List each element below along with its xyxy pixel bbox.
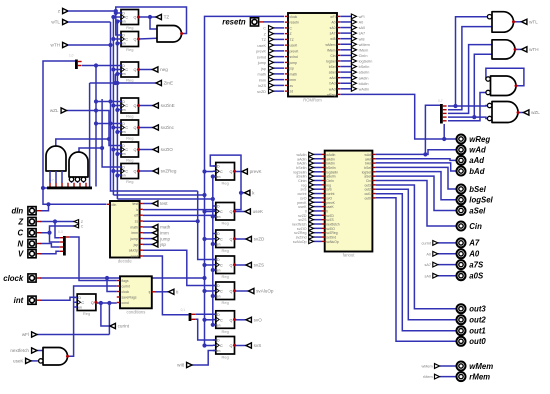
svg-text:math: math	[160, 225, 171, 230]
wire wFl tunnel net	[37, 334, 109, 336]
output pin out2	[457, 315, 466, 324]
svg-text:svZD: svZD	[254, 237, 265, 242]
tunnel wTH	[522, 47, 527, 52]
svg-text:logSel: logSel	[326, 59, 336, 63]
svg-text:wI8: wI8	[177, 363, 185, 368]
svg-text:Q: Q	[230, 170, 233, 174]
wire gate G3 output loop to its inverted input	[486, 68, 524, 85]
svg-text:C: C	[125, 126, 128, 130]
fanout left input tunnels	[292, 152, 322, 244]
svg-text:zd: zd	[290, 90, 294, 94]
wire fanout bSel to bSel pin	[376, 167, 457, 189]
svg-text:D: D	[217, 165, 220, 169]
tunnel wMem input	[435, 364, 440, 369]
svg-text:svZD: svZD	[257, 90, 266, 94]
wire register svS Q to tunnel	[235, 345, 247, 347]
wire splitter bit0 to gate G1 inverted input	[448, 17, 488, 108]
svg-text:curInt: curInt	[422, 242, 432, 246]
svg-text:useK: useK	[253, 209, 264, 214]
svg-text:0-7: 0-7	[438, 99, 443, 103]
wire decode aluOp output to svAluOp register D	[143, 250, 216, 285]
wire splitter bit4 to gate G3 inverted input	[448, 93, 486, 121]
register A4 svZinE	[118, 98, 140, 119]
svg-text:useK: useK	[290, 44, 298, 48]
svg-text:svZinc: svZinc	[161, 125, 175, 130]
svg-text:svO: svO	[254, 318, 263, 323]
svg-text:Q: Q	[230, 318, 233, 322]
svg-text:Reg: Reg	[221, 300, 228, 305]
wire decode zs output to svZS register D	[143, 191, 216, 260]
output pin aAd	[457, 156, 466, 165]
svg-text:wTL: wTL	[529, 20, 538, 25]
svg-text:jump: jump	[257, 61, 266, 65]
output pin wMem	[457, 362, 466, 371]
wire wMem tunnel to wMem pin	[440, 365, 457, 367]
wire conditions ti output to tunnel	[155, 291, 169, 293]
svg-text:Reg: Reg	[83, 311, 90, 316]
svg-text:a7S: a7S	[469, 260, 484, 269]
wire ROMRom wReg output to wReg pin	[340, 94, 456, 141]
svg-text:D: D	[217, 339, 220, 343]
svg-text:bAdIn: bAdIn	[359, 82, 369, 86]
svg-text:C: C	[81, 225, 84, 229]
condition splitter	[181, 308, 196, 321]
svg-text:Q: Q	[230, 237, 233, 241]
svg-text:en: en	[78, 306, 82, 310]
wire up-gate 2 output to register A7 D	[79, 148, 118, 167]
svg-text:out2: out2	[469, 316, 486, 325]
ROMRom control block U1	[285, 13, 340, 103]
and gate G2 wTH	[492, 40, 515, 59]
output pin out0	[457, 337, 466, 346]
svg-text:sA7: sA7	[424, 263, 431, 267]
tunnel svO	[246, 317, 251, 322]
svg-text:en: en	[122, 72, 126, 76]
register A7 svZReg	[118, 164, 140, 185]
svg-text:en: en	[217, 323, 221, 327]
svg-text:Q: Q	[134, 38, 137, 42]
svg-text:Q: Q	[230, 210, 233, 214]
wire wReg to address splitter	[443, 124, 445, 139]
conditions block U4	[117, 276, 155, 314]
svg-text:en: en	[217, 215, 221, 219]
wire fanout wAd to wAd pin	[376, 150, 457, 155]
wire fanout out1 to out1 pin	[376, 194, 457, 331]
svg-text:imm: imm	[259, 78, 266, 82]
svg-text:prevK: prevK	[290, 49, 300, 53]
svg-text:wI8: wI8	[330, 37, 335, 41]
svg-text:en: en	[122, 174, 126, 178]
wire wZL tunnel input net	[67, 111, 110, 140]
wire condition splitter bit1 to svS register D	[195, 319, 216, 340]
svg-text:inZS: inZS	[258, 84, 266, 88]
register A1 TZ	[118, 10, 140, 31]
svg-text:out0: out0	[469, 337, 486, 346]
wire flags bus to conditions block	[70, 237, 117, 281]
svg-text:C: C	[220, 170, 223, 174]
svg-text:C: C	[125, 38, 128, 42]
svg-text:bSel: bSel	[469, 185, 486, 194]
wire TZ and-gate feedback loop	[114, 7, 187, 35]
tunnel k	[245, 190, 250, 195]
wire fanout aAd to aAd pin	[376, 159, 457, 161]
svg-text:Q: Q	[230, 263, 233, 267]
svg-text:math: math	[130, 225, 138, 229]
tunnel nextfetch	[32, 348, 37, 353]
svg-text:Reg: Reg	[221, 181, 228, 186]
svg-text:test: test	[132, 202, 138, 206]
tunnel useK	[245, 209, 250, 214]
wire V pin to flags splitter	[40, 251, 59, 253]
svg-text:nextfetch: nextfetch	[10, 348, 29, 353]
svg-text:TZ: TZ	[290, 38, 294, 42]
svg-text:Reg: Reg	[126, 114, 133, 119]
svg-text:clock: clock	[290, 15, 298, 19]
input pin resetn	[250, 18, 258, 26]
register A3 neg	[118, 62, 140, 83]
svg-text:svInd: svInd	[257, 55, 266, 59]
register svAluOp	[213, 282, 236, 305]
register prevK	[213, 163, 236, 186]
input pin clock	[28, 274, 36, 282]
svg-text:wI8: wI8	[359, 37, 365, 41]
svg-text:A0: A0	[331, 20, 335, 24]
wire clock to conditions block	[105, 276, 117, 292]
svg-text:wFl: wFl	[359, 15, 365, 19]
svg-text:Q: Q	[230, 344, 233, 348]
wire splitter bit1 to gate G1 input	[448, 27, 492, 110]
wire left vertical x96	[95, 111, 97, 187]
output pin out3	[457, 304, 466, 313]
wire register svZD Q to tunnel	[235, 238, 247, 240]
wire N pin to flags splitter	[40, 244, 59, 248]
svg-text:out1: out1	[469, 327, 485, 336]
svg-text:wFl: wFl	[330, 15, 336, 19]
svg-text:svInd: svInd	[290, 55, 298, 59]
svg-text:useK: useK	[13, 359, 24, 364]
svg-text:bSelIn: bSelIn	[359, 65, 370, 69]
svg-text:Reg: Reg	[126, 25, 133, 30]
wire gate G4 output to wZL tunnel	[518, 112, 524, 114]
svg-text:zs: zs	[290, 84, 294, 88]
svg-text:wReg: wReg	[327, 93, 336, 97]
wire wTH tunnel to registers	[68, 44, 111, 46]
tunnel wFl	[32, 332, 37, 337]
svg-text:aAd: aAd	[329, 76, 335, 80]
wire curInt tunnel stub	[99, 301, 110, 326]
wire sA7 tunnel to a7S pin	[438, 264, 456, 266]
wire T splitter to register A3 D	[82, 63, 118, 112]
svg-text:Q: Q	[134, 68, 137, 72]
svg-text:A7: A7	[468, 239, 480, 248]
svg-text:Q: Q	[134, 104, 137, 108]
register svZS	[213, 256, 236, 279]
svg-text:V: V	[18, 250, 24, 259]
svg-text:svZIO: svZIO	[161, 147, 174, 152]
svg-text:Cin: Cin	[330, 54, 335, 58]
svg-text:N: N	[18, 239, 24, 248]
svg-text:jsp: jsp	[133, 243, 139, 247]
wire fanout Cin to Cin pin	[376, 181, 457, 227]
wire wAd bus to address splitter	[423, 105, 440, 156]
svg-text:a0S: a0S	[469, 272, 484, 281]
up and-gate L1	[46, 146, 66, 171]
tunnel A0	[433, 251, 438, 256]
wire TZ register output to tunnel	[139, 15, 158, 29]
wire int register Q to conditions cond input	[97, 301, 117, 335]
svg-text:Q: Q	[134, 148, 137, 152]
wire resetn pin to ROMRom block	[263, 21, 284, 23]
wire fanout out2 to out2 pin	[376, 189, 457, 320]
svg-text:wMem: wMem	[422, 365, 433, 369]
wire decode k output net with prevK feedback loop	[143, 155, 245, 210]
svg-text:wAd: wAd	[329, 87, 336, 91]
svg-text:TZ: TZ	[164, 15, 170, 20]
and gate G4 wZL with inverted inputs	[487, 102, 518, 123]
output pin aSel	[457, 206, 466, 215]
svg-text:C: C	[125, 68, 128, 72]
svg-text:A0: A0	[468, 250, 480, 259]
input pin dIn	[28, 207, 36, 215]
wire decode test output to tunnel	[143, 203, 153, 205]
svg-text:Reg: Reg	[126, 47, 133, 52]
wire sA0 tunnel to a0S pin	[438, 275, 456, 277]
register A5 svZinc	[118, 120, 140, 141]
input pin int	[28, 296, 36, 304]
svg-text:C: C	[125, 170, 128, 174]
svg-text:en: en	[217, 175, 221, 179]
svg-text:logSelIn: logSelIn	[359, 60, 373, 64]
svg-text:prevK: prevK	[250, 169, 263, 174]
svg-text:sA7: sA7	[359, 32, 366, 36]
wire fanout bAd to bAd pin	[376, 163, 457, 171]
svg-text:imm: imm	[160, 231, 169, 236]
tunnel wTL	[522, 19, 527, 24]
svg-text:wMem: wMem	[359, 43, 370, 47]
tunnel sA7	[433, 262, 438, 267]
svg-text:rMem: rMem	[423, 375, 433, 379]
output pin A0	[457, 249, 466, 258]
svg-text:curInt: curInt	[118, 324, 130, 329]
svg-text:fanout: fanout	[343, 253, 355, 258]
wire curInt net from interrupt gate to conditions	[68, 286, 117, 356]
svg-text:imm: imm	[131, 231, 138, 235]
svg-text:A0: A0	[426, 252, 431, 256]
tunnel z top left	[63, 8, 68, 13]
svg-text:Q: Q	[134, 170, 137, 174]
svg-text:wAdIn: wAdIn	[359, 87, 370, 91]
wire register svAluOp Q to tunnel	[235, 290, 249, 292]
svg-text:rMem: rMem	[469, 372, 490, 381]
svg-text:dIn: dIn	[112, 203, 117, 207]
wires splitter bits to up-gates	[50, 171, 84, 183]
output pin wReg	[457, 135, 466, 144]
svg-text:D: D	[217, 232, 220, 236]
svg-text:C: C	[220, 344, 223, 348]
svg-text:C: C	[81, 301, 84, 305]
svg-text:aluOp: aluOp	[129, 249, 138, 253]
svg-text:Q: Q	[134, 16, 137, 20]
svg-text:zs: zs	[135, 219, 139, 223]
wire fanout out0 to out0 pin	[376, 198, 457, 341]
svg-text:imm: imm	[290, 78, 297, 82]
svg-text:en: en	[217, 269, 221, 273]
address splitter top right	[438, 99, 447, 124]
svg-text:svZS: svZS	[254, 263, 264, 268]
svg-text:eff: eff	[134, 214, 138, 218]
svg-text:wZL: wZL	[531, 110, 540, 115]
svg-text:Z: Z	[290, 32, 292, 36]
tunnel prevK	[242, 169, 247, 174]
output pin bSel	[457, 185, 466, 194]
wire register A4 Q to svZinE tunnel	[139, 105, 154, 107]
output pin wAd	[457, 145, 466, 154]
svg-text:C: C	[220, 237, 223, 241]
wire decode math imm jump jsp outputs to tunnels	[143, 227, 153, 244]
tunnel wZL output	[524, 110, 529, 115]
tunnel svZIO	[153, 147, 158, 152]
svg-text:sA0: sA0	[330, 26, 336, 30]
tunnel ZinE	[156, 80, 161, 85]
tunnel wTL input	[63, 19, 68, 24]
svg-text:int: int	[14, 296, 24, 305]
ROMRom left input tunnels	[256, 26, 284, 94]
tunnel rMem input	[435, 374, 440, 379]
tunnel svS	[246, 343, 251, 348]
svg-text:svS: svS	[254, 343, 262, 348]
ROMRom right output tunnels	[340, 14, 372, 91]
register svZD	[213, 230, 236, 253]
register int	[74, 294, 97, 316]
tunnel svZinc	[153, 125, 158, 130]
register A2	[118, 32, 140, 53]
wire Z pin to Z tunnel and flags splitter	[40, 219, 74, 237]
tunnel svAluOp	[249, 288, 254, 293]
decode output tunnels test math imm jump jsp	[153, 201, 171, 247]
output pin a0S	[457, 271, 466, 280]
wire fanout logSel to logSel pin	[376, 172, 457, 200]
wire splitter bit3 to gate G2 input	[448, 54, 492, 119]
tunnel TZ	[156, 14, 161, 19]
wire rMem tunnel to rMem pin	[440, 376, 457, 378]
tunnel svZS	[246, 262, 251, 267]
svg-text:en: en	[217, 295, 221, 299]
svg-text:aSel: aSel	[469, 206, 486, 215]
svg-text:curInt: curInt	[122, 285, 130, 289]
svg-text:Q: Q	[230, 289, 233, 293]
svg-text:bAd: bAd	[469, 167, 484, 176]
svg-text:wZL: wZL	[50, 108, 59, 113]
svg-text:en: en	[217, 243, 221, 247]
svg-text:ZinE: ZinE	[164, 81, 173, 86]
svg-text:svAluOp: svAluOp	[256, 289, 274, 294]
svg-text:aSel: aSel	[329, 71, 336, 75]
svg-text:wAd: wAd	[469, 146, 486, 155]
svg-text:ROMRom: ROMRom	[303, 98, 322, 103]
wire nextfetch tunnel to gate	[37, 350, 43, 352]
svg-text:wTH: wTH	[51, 43, 60, 48]
svg-text:bAd: bAd	[329, 82, 335, 86]
wire condition splitter bit0 to svO register D	[195, 313, 216, 315]
svg-text:conditions: conditions	[126, 309, 145, 314]
wire left clock trunk to left register column	[111, 15, 118, 195]
tunnel curInt to A7	[433, 241, 438, 246]
input pin Z	[28, 217, 36, 225]
svg-text:out3: out3	[469, 305, 486, 314]
decode block U3	[107, 201, 143, 264]
svg-text:sA0: sA0	[359, 26, 366, 30]
svg-text:ti: ti	[176, 290, 178, 295]
tunnel curInt	[110, 323, 115, 328]
input pin C	[28, 229, 36, 237]
wire A0 tunnel to A0 pin	[438, 253, 456, 255]
register A6 svZIO	[118, 142, 140, 163]
svg-text:neg: neg	[160, 67, 168, 72]
wire int pin to int register	[40, 297, 77, 300]
register useK	[213, 203, 236, 226]
svg-text:cond: cond	[122, 301, 129, 305]
wire register A2 Q to and-gate	[139, 37, 158, 40]
svg-text:prevK: prevK	[256, 50, 266, 54]
svg-text:Q: Q	[134, 126, 137, 130]
wire splitter bit2 to gate G2 input	[448, 45, 492, 114]
svg-text:svAluOp: svAluOp	[293, 240, 307, 244]
svg-text:jump: jump	[130, 237, 139, 241]
svg-text:decode: decode	[118, 259, 132, 264]
svg-text:0,1: 0,1	[181, 308, 186, 312]
wire gate G1 output to wTL tunnel	[514, 21, 522, 23]
svg-text:Z: Z	[17, 217, 23, 226]
wire useK tunnel to gate inverted input	[31, 360, 39, 362]
output pin Cin	[457, 222, 466, 231]
svg-text:Reg: Reg	[221, 355, 228, 360]
tunnel Z flag	[74, 220, 79, 224]
svg-text:out0: out0	[364, 196, 371, 200]
svg-text:C: C	[263, 27, 266, 31]
and gate G1 wTL	[487, 12, 513, 33]
svg-text:C: C	[220, 263, 223, 267]
register svO	[213, 311, 236, 334]
output pin rMem	[457, 372, 466, 381]
svg-text:0-3: 0-3	[58, 230, 63, 234]
wire D trunk for registers A4 A5	[94, 22, 198, 191]
svg-text:flags: flags	[122, 279, 129, 283]
svg-text:aAdIn: aAdIn	[359, 76, 369, 80]
svg-text:resetn: resetn	[290, 21, 300, 25]
svg-text:D: D	[78, 296, 81, 300]
up and-gate L2 with inverted inputs	[69, 152, 88, 182]
wire register prevK Q to tunnel	[235, 171, 243, 173]
svg-text:aSelIn: aSelIn	[359, 71, 370, 75]
wire enable net trunk	[115, 19, 215, 327]
output pin a7S	[457, 260, 466, 269]
svg-text:jsp: jsp	[260, 67, 266, 71]
wire gate G2 output to wTH tunnel	[515, 48, 522, 50]
tunnel sA0	[433, 273, 438, 278]
tunnel C flag	[74, 224, 79, 228]
svg-text:bSel: bSel	[329, 65, 336, 69]
output pin logSel	[457, 195, 466, 204]
wire data bus into bit splitter	[43, 187, 47, 189]
svg-text:Reg: Reg	[126, 78, 133, 83]
svg-text:Reg: Reg	[126, 136, 133, 141]
svg-text:A0: A0	[359, 21, 364, 25]
svg-text:en: en	[122, 108, 126, 112]
svg-text:wReg: wReg	[469, 135, 490, 144]
wire register A3 Q to neg tunnel	[139, 69, 153, 71]
output pin A7	[457, 238, 466, 247]
tunnel wTH input	[63, 42, 68, 47]
